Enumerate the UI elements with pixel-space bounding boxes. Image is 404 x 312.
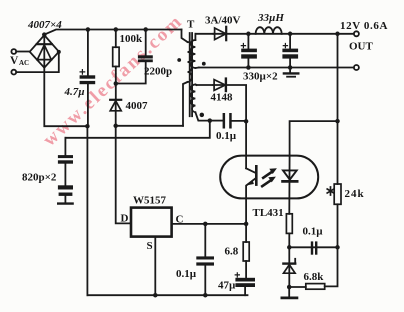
node drain junction	[113, 124, 118, 129]
svg-text:6.8k: 6.8k	[304, 271, 325, 283]
svg-text:100k: 100k	[120, 33, 144, 45]
node rail1 100k top	[114, 27, 119, 32]
node emitter / C junction	[244, 222, 249, 227]
svg-text:4.7µ: 4.7µ	[64, 86, 85, 98]
node 100k-2200p junction	[114, 81, 119, 86]
node 0.1u bottom rail	[203, 293, 208, 298]
node return cap2	[288, 65, 293, 70]
svg-text:4148: 4148	[211, 92, 234, 104]
resistor 6.8	[243, 224, 249, 278]
diode 4148	[197, 79, 247, 122]
svg-text:AC: AC	[19, 59, 29, 67]
svg-text:0.1µ: 0.1µ	[176, 268, 197, 280]
svg-text:V: V	[10, 55, 19, 67]
svg-text:D: D	[121, 213, 129, 225]
bridge rectifier 4007x4 diamond	[30, 35, 59, 68]
node bridge top vertex	[42, 32, 47, 37]
wire secondary top to diode	[195, 33, 213, 35]
resistor 100k	[113, 30, 119, 100]
svg-text:12V 0.6A: 12V 0.6A	[340, 20, 388, 32]
wire 820p line to feedback winding	[65, 121, 209, 138]
wire output return rail	[199, 67, 354, 69]
svg-text:2200p: 2200p	[144, 66, 172, 78]
node rail fb top	[335, 32, 340, 37]
wire C lead	[172, 223, 247, 225]
wire feedback vertical from rail	[337, 34, 339, 184]
wire AC upper to bridge left vertex	[16, 51, 30, 53]
svg-text:3A/40V: 3A/40V	[205, 15, 241, 27]
wire emitter to C node	[245, 198, 247, 224]
capacitor 0.1u comp	[289, 241, 337, 254]
feedback phase dot	[200, 113, 205, 118]
wire S lead	[154, 237, 156, 296]
svg-text:47µ: 47µ	[218, 280, 236, 292]
transformer feedback winding	[191, 85, 210, 121]
capacitor 330u no.1	[241, 34, 257, 68]
primary phase dot	[177, 58, 181, 62]
svg-text:4007: 4007	[126, 100, 149, 112]
capacitor 0.1u at C	[196, 224, 214, 295]
optocoupler body	[220, 156, 318, 199]
svg-text:0.1µ: 0.1µ	[303, 226, 324, 238]
ground secondary	[284, 68, 298, 77]
diode 3A/40V	[213, 27, 248, 40]
capacitor 2200p	[116, 30, 153, 84]
capacitor 47u	[235, 273, 255, 295]
AC input terminal upper	[11, 49, 16, 54]
node return cap1	[246, 65, 251, 70]
svg-text:TL431: TL431	[253, 207, 284, 219]
node rail1 2200p top	[143, 27, 148, 32]
svg-text:33µH: 33µH	[257, 12, 284, 24]
node rail1 4.7u top	[86, 27, 91, 32]
svg-text:T: T	[187, 19, 195, 31]
svg-text:820p×2: 820p×2	[22, 172, 57, 184]
wire AC lower to bridge right vertex	[16, 53, 59, 73]
resistor 24k	[334, 184, 341, 247]
node rail cap2 top	[288, 32, 293, 37]
wire rail to output	[290, 33, 354, 35]
node TL431 anode	[287, 285, 292, 290]
capacitor 820p x2	[58, 138, 73, 204]
wire drain node to primary bottom	[116, 125, 183, 127]
node bridge right vertex	[57, 50, 61, 54]
transformer secondary winding	[191, 34, 199, 68]
diode 4007 snubber	[110, 100, 121, 126]
inductor 33uH	[248, 27, 290, 34]
svg-text:W5157: W5157	[133, 195, 167, 207]
svg-text:0.1µ: 0.1µ	[216, 130, 237, 142]
node fb branch	[335, 119, 340, 124]
node comp left	[287, 245, 292, 250]
wire bottom rail	[87, 294, 247, 296]
transformer core	[190, 33, 192, 116]
svg-text:330µ×2: 330µ×2	[243, 71, 278, 83]
secondary phase dot	[202, 62, 206, 66]
optocoupler LED	[283, 156, 298, 214]
node 4148 cathode junction	[244, 119, 249, 124]
optocoupler light arrows	[262, 168, 277, 186]
resistor 6.8k	[289, 247, 337, 289]
capacitor 4.7u	[80, 30, 96, 127]
output terminal plus	[354, 31, 359, 36]
node C 0.1u top	[203, 222, 208, 227]
capacitor 0.1u snubber	[210, 113, 246, 129]
node rail cap1 top	[246, 32, 251, 37]
TL431 device symbol	[283, 233, 295, 287]
transformer T primary winding	[182, 30, 193, 126]
optocoupler phototransistor	[246, 121, 256, 198]
wire fb branch to LED	[290, 121, 338, 156]
node comp right	[335, 245, 340, 250]
output terminal minus	[354, 65, 359, 70]
wire primary ground riser down left side	[86, 126, 88, 295]
IC W5157	[131, 208, 172, 237]
node feedback bottom junction	[208, 118, 213, 123]
resistor LED series	[286, 214, 292, 234]
asterisk mark	[327, 187, 334, 195]
wire bridge top to primary rail	[44, 30, 181, 35]
wire bridge bottom down and right	[44, 68, 87, 127]
wire drain column down to W5157 D	[116, 126, 131, 224]
label V AC	[10, 55, 29, 67]
svg-text:24k: 24k	[345, 188, 365, 200]
node 4.7u bottom junction	[85, 124, 90, 129]
ground TL431	[282, 287, 297, 298]
svg-text:OUT: OUT	[349, 41, 374, 53]
capacitor 330u no.2	[282, 34, 298, 68]
AC input terminal lower	[11, 70, 16, 75]
svg-text:S: S	[147, 240, 153, 252]
svg-text:6.8: 6.8	[225, 246, 239, 258]
watermark www.elecfans.com	[39, 11, 187, 151]
node S on bottom rail	[153, 293, 158, 298]
